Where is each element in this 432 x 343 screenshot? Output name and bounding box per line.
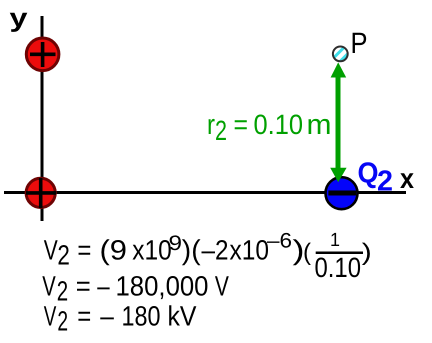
- svg-text:180,000: 180,000: [116, 271, 209, 302]
- svg-text:=: =: [76, 271, 91, 302]
- svg-text:x10: x10: [132, 235, 172, 266]
- svg-text:–2: –2: [202, 235, 229, 266]
- svg-text:2: 2: [377, 166, 393, 198]
- svg-text:1: 1: [330, 230, 340, 251]
- svg-text:(: (: [303, 239, 311, 266]
- svg-text:(9: (9: [100, 235, 128, 266]
- svg-text:kV: kV: [168, 301, 197, 332]
- svg-text:–: –: [100, 301, 114, 332]
- svg-text:)(: )(: [182, 235, 201, 266]
- svg-text:x10: x10: [230, 235, 270, 266]
- svg-text:V: V: [44, 235, 58, 266]
- svg-text:=: =: [77, 235, 91, 266]
- svg-text:x: x: [400, 163, 414, 194]
- svg-text:r: r: [207, 109, 215, 140]
- svg-text:–6: –6: [267, 230, 292, 253]
- svg-text:): ): [362, 239, 372, 266]
- svg-text:0.10: 0.10: [254, 109, 304, 140]
- svg-text:0.10: 0.10: [315, 252, 362, 283]
- svg-text:180: 180: [122, 301, 161, 332]
- svg-text:2: 2: [215, 115, 227, 146]
- svg-text:y: y: [10, 3, 29, 33]
- svg-text:2: 2: [57, 240, 70, 271]
- svg-text:m: m: [307, 109, 332, 140]
- svg-text:P: P: [351, 27, 368, 60]
- svg-text:9: 9: [169, 232, 183, 255]
- svg-text:V: V: [42, 271, 56, 302]
- svg-text:V: V: [44, 301, 57, 332]
- svg-text:Q: Q: [358, 158, 379, 190]
- svg-text:=: =: [234, 109, 249, 140]
- svg-text:V: V: [215, 271, 229, 302]
- svg-text:=: =: [77, 301, 91, 332]
- svg-text:2: 2: [57, 276, 68, 307]
- svg-text:2: 2: [57, 306, 68, 337]
- svg-text:–: –: [97, 271, 110, 302]
